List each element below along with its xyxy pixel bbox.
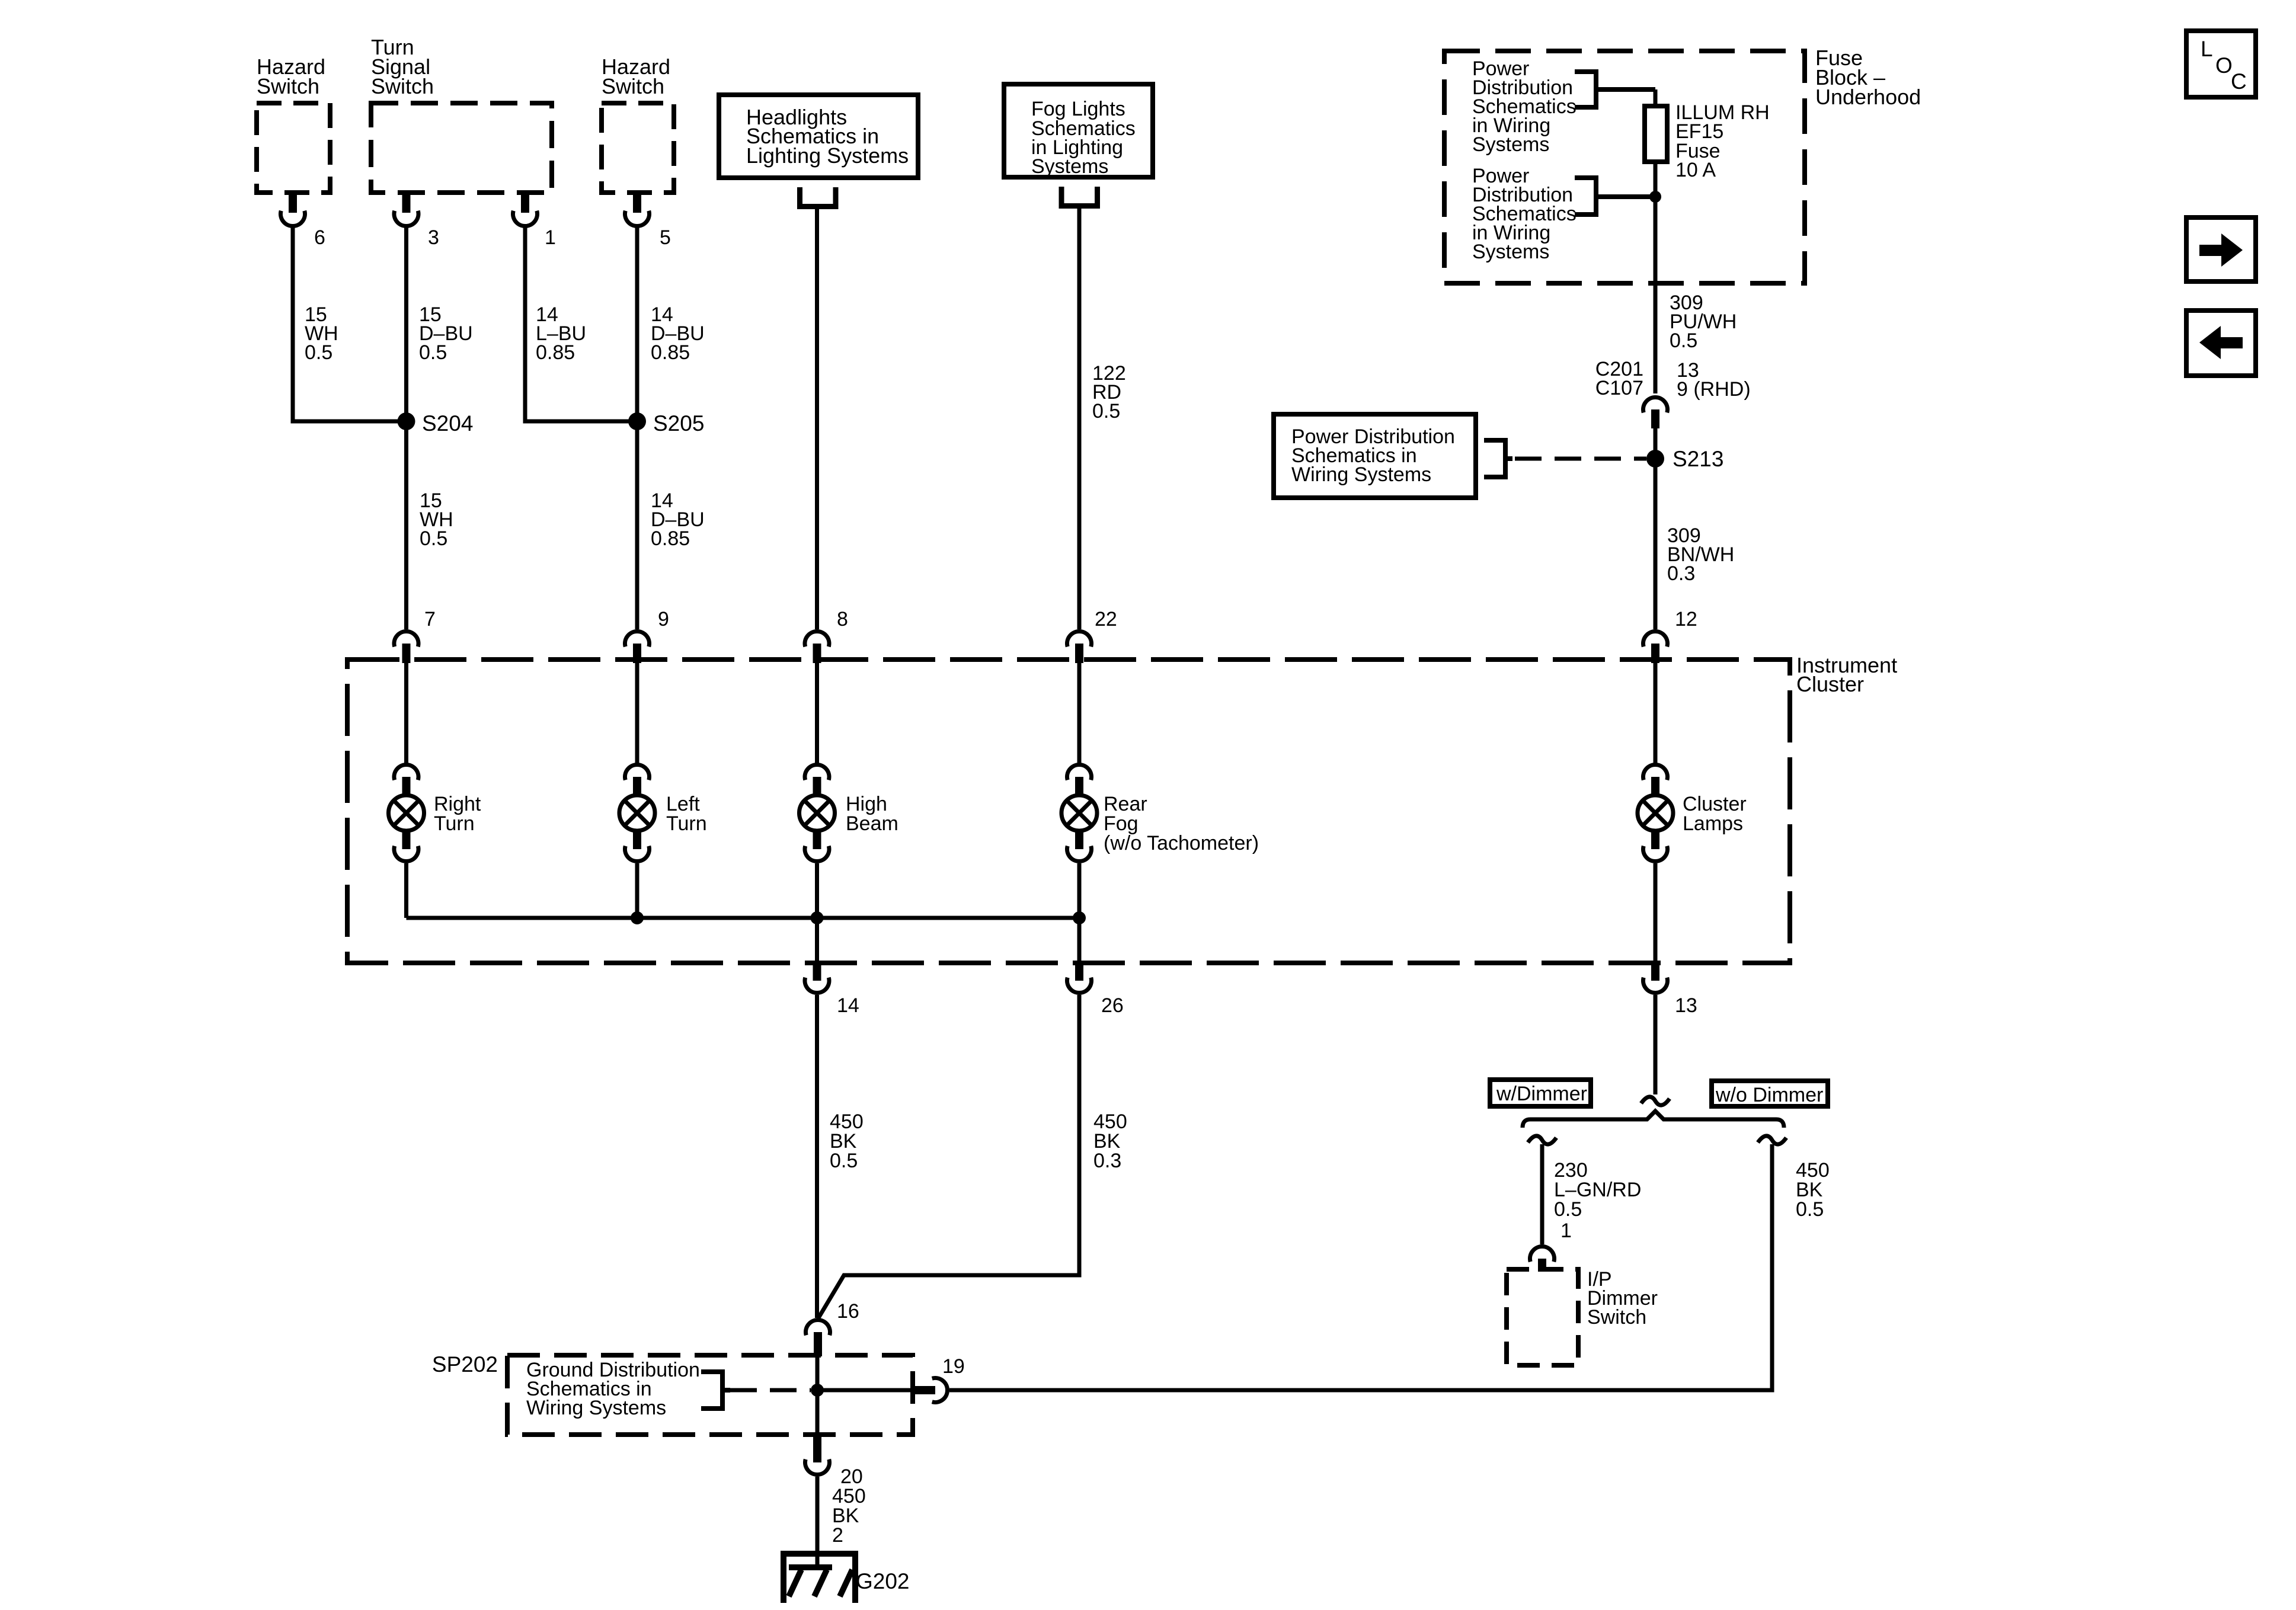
svg-text:6: 6	[314, 226, 325, 249]
bracket ref 1	[1575, 72, 1655, 107]
left arrow glyph	[2199, 326, 2243, 359]
svg-text:0.5: 0.5	[830, 1150, 858, 1172]
connector pin 5	[625, 194, 650, 226]
junction dot fuse feed	[1649, 191, 1661, 203]
svg-text:Switch: Switch	[602, 74, 664, 98]
wire pin6 to S204	[293, 227, 402, 421]
option break squiggle w/o dimmer	[1758, 1136, 1786, 1144]
svg-text:8: 8	[837, 608, 848, 630]
lamp right turn	[389, 663, 424, 918]
ground G202	[781, 1551, 858, 1603]
svg-text:5: 5	[660, 226, 671, 249]
hazard switch 2 dashed box	[602, 103, 674, 193]
wire w/dimmer branch	[1540, 1144, 1544, 1244]
text: fuse block ref 2	[1472, 165, 1576, 263]
dashed ref wire to SP202 junction	[730, 1388, 811, 1393]
svg-text:16: 16	[837, 1300, 859, 1323]
svg-text:Turn: Turn	[666, 812, 707, 835]
text: titles top row	[257, 35, 670, 98]
connector pin 1 I/P	[1530, 1246, 1555, 1272]
svg-text:Wiring Systems: Wiring Systems	[526, 1397, 666, 1419]
svg-text:26: 26	[1101, 994, 1124, 1017]
svg-text:w/Dimmer: w/Dimmer	[1496, 1083, 1587, 1105]
text: LOC letters	[2201, 37, 2247, 94]
svg-text:0.5: 0.5	[419, 341, 447, 364]
svg-text:Turn: Turn	[434, 812, 475, 835]
lamp high beam	[800, 663, 835, 964]
svg-text:SP202: SP202	[432, 1352, 498, 1377]
right arrow box	[2186, 217, 2256, 281]
option break squiggle main	[1641, 1097, 1670, 1105]
svg-text:S213: S213	[1673, 447, 1723, 471]
cluster internal bus wire	[407, 916, 1080, 920]
text: pin numbers top	[314, 226, 671, 249]
svg-text:12: 12	[1675, 608, 1697, 630]
svg-text:14: 14	[837, 994, 859, 1017]
svg-text:Systems: Systems	[1031, 155, 1108, 178]
wire pin19 to w/o dimmer branch	[949, 1144, 1772, 1390]
wire through SP202	[816, 1356, 820, 1436]
LOC box	[2186, 31, 2256, 97]
svg-text:2: 2	[832, 1524, 843, 1547]
text: instrument cluster	[1796, 653, 1897, 696]
SP202 dashed box	[507, 1355, 913, 1435]
option brace	[1523, 1111, 1784, 1128]
text: wire labels row2	[420, 489, 705, 550]
svg-text:C: C	[2231, 69, 2247, 94]
wire pin1 to S205	[525, 227, 632, 421]
svg-text:19: 19	[942, 1355, 965, 1378]
svg-text:Lighting Systems: Lighting Systems	[746, 143, 909, 168]
svg-text:Beam: Beam	[846, 812, 898, 835]
connector pin 1	[513, 194, 538, 226]
connector pin 3	[394, 194, 418, 226]
svg-text:L: L	[2201, 37, 2213, 61]
svg-text:w/o Dimmer: w/o Dimmer	[1715, 1084, 1823, 1106]
connector pin 14	[805, 964, 829, 993]
svg-text:0.5: 0.5	[1554, 1198, 1582, 1221]
headlights connector shell	[797, 187, 839, 207]
svg-text:0.5: 0.5	[1670, 329, 1697, 352]
junction S213	[1646, 450, 1664, 468]
svg-text:S204: S204	[422, 411, 473, 436]
wire headlights to pin8	[815, 209, 819, 629]
connector pin 22	[1067, 631, 1092, 663]
connector pin 6	[281, 194, 305, 226]
fuse EF15	[1645, 106, 1667, 162]
svg-text:S205: S205	[653, 411, 704, 436]
svg-text:3: 3	[428, 226, 439, 249]
svg-text:0.85: 0.85	[651, 527, 690, 550]
text: wire 450 BK 0.3	[1093, 1110, 1127, 1172]
text: power distribution ref box	[1291, 425, 1455, 486]
hazard switch 1 dashed box	[257, 103, 330, 193]
lamp left turn	[619, 663, 655, 918]
svg-text:0.5: 0.5	[420, 527, 447, 550]
connector pin 20	[805, 1436, 830, 1475]
bracket ref 4	[701, 1372, 730, 1409]
svg-text:0.5: 0.5	[305, 341, 332, 364]
svg-text:(w/o Tachometer): (w/o Tachometer)	[1104, 832, 1259, 854]
svg-text:9: 9	[658, 608, 669, 630]
junction S204	[398, 412, 415, 430]
text: wire 450 BK 0.5 right	[1796, 1159, 1830, 1221]
connector pin 9	[625, 631, 650, 663]
wire pin5 through S205 down to pin9	[635, 227, 639, 629]
svg-text:0.5: 0.5	[1796, 1198, 1824, 1221]
svg-text:Systems: Systems	[1472, 133, 1549, 156]
fuse block underhood dashed box	[1444, 51, 1805, 283]
text: wire 309 BN/WH	[1667, 524, 1734, 585]
junction dot SP202	[811, 1384, 824, 1397]
w/Dimmer label box	[1490, 1080, 1591, 1106]
svg-text:0.3: 0.3	[1093, 1150, 1121, 1172]
text: C201 C107	[1595, 358, 1643, 399]
headlights solid box	[719, 95, 918, 178]
wire pin14 down to pin16	[815, 995, 819, 1318]
junction dot bus left turn	[631, 911, 644, 924]
svg-text:Underhood: Underhood	[1815, 85, 1921, 109]
svg-text:10 A: 10 A	[1675, 159, 1716, 181]
svg-text:Systems: Systems	[1472, 241, 1549, 263]
text: fuse label	[1675, 101, 1770, 181]
svg-text:9 (RHD): 9 (RHD)	[1677, 378, 1751, 401]
junction dot bus rear fog	[1073, 911, 1086, 924]
svg-text:Lamps: Lamps	[1683, 812, 1743, 835]
text: wire labels row1	[305, 303, 705, 364]
dashed ref wire to S213	[1515, 457, 1646, 461]
connector pin 16	[806, 1320, 830, 1356]
fog lights solid box	[1004, 84, 1153, 177]
wire pin26 down and over to pin16	[818, 995, 1079, 1318]
text: wire 230 L-GN/RD	[1554, 1159, 1641, 1221]
text: bottom pin numbers	[837, 994, 1697, 1017]
svg-text:G202: G202	[856, 1569, 910, 1593]
wire bracket1 to fuse	[1654, 89, 1658, 106]
text: fuse block ref 1	[1472, 57, 1576, 156]
connector pin 19	[913, 1378, 948, 1403]
text: headlights box	[746, 105, 909, 168]
svg-text:0.85: 0.85	[651, 341, 690, 364]
svg-text:0.3: 0.3	[1667, 562, 1695, 585]
w/o Dimmer label box	[1712, 1081, 1828, 1106]
right arrow glyph	[2199, 233, 2243, 267]
svg-text:Cluster: Cluster	[1796, 672, 1864, 696]
wire pin20 to ground	[816, 1477, 820, 1569]
instrument cluster dashed box	[347, 660, 1790, 963]
power distribution ref solid box	[1274, 414, 1476, 498]
svg-text:Switch: Switch	[257, 74, 319, 98]
turn signal switch dashed box	[371, 103, 552, 193]
svg-text:O: O	[2215, 53, 2233, 78]
svg-text:C107: C107	[1595, 377, 1643, 399]
text: ground distribution ref	[526, 1359, 700, 1419]
lamp rear fog	[1061, 663, 1097, 964]
text: fog lights box	[1031, 98, 1136, 178]
wire pin13 down to option split	[1654, 995, 1658, 1094]
connector pin 7	[394, 631, 418, 663]
svg-text:0.5: 0.5	[1092, 400, 1120, 422]
junction dot bus high beam	[811, 911, 824, 924]
wire fuse down through fuse block	[1654, 162, 1658, 393]
junction S205	[628, 412, 646, 430]
I/P dimmer switch dashed box	[1507, 1269, 1578, 1365]
lamp cluster lamps	[1638, 663, 1673, 964]
wire C201 to S213 to pin12	[1654, 428, 1658, 629]
text: pin 13 / 9 RHD	[1677, 359, 1751, 401]
connector pin 26	[1067, 964, 1092, 993]
text: lamp labels	[434, 793, 1747, 854]
text: I/P dimmer switch	[1587, 1268, 1658, 1329]
text: fuse block title	[1815, 46, 1921, 109]
connector pin 12	[1643, 631, 1667, 663]
connector pin 13	[1643, 964, 1668, 993]
wire SP202 junction to pin19	[817, 1388, 913, 1393]
text: wire 450 BK 0.5	[830, 1110, 864, 1172]
connector C201/C107	[1643, 397, 1667, 428]
bracket ref 2	[1575, 178, 1655, 215]
text: cluster pin numbers	[424, 608, 1697, 630]
option break squiggle w/dimmer	[1528, 1136, 1556, 1144]
svg-text:7: 7	[424, 608, 436, 630]
connector pin 8	[805, 631, 829, 663]
svg-text:1: 1	[1560, 1219, 1572, 1242]
svg-text:0.85: 0.85	[536, 341, 575, 364]
svg-text:13: 13	[1675, 994, 1697, 1017]
svg-text:Switch: Switch	[371, 74, 434, 98]
bracket ref 3	[1484, 440, 1512, 477]
svg-text:1: 1	[545, 226, 556, 249]
text: pin 20 and wire 450 BK 2	[832, 1465, 866, 1547]
text: wire 309 PU/WH	[1670, 292, 1737, 352]
svg-text:Switch: Switch	[1587, 1306, 1646, 1329]
left arrow box	[2186, 311, 2256, 376]
text: wire 122 RD	[1092, 362, 1126, 422]
wire fog lights to pin22	[1077, 209, 1082, 629]
wire pin3 through S204 down to pin7	[404, 227, 408, 629]
fog lights connector shell	[1059, 187, 1101, 206]
svg-text:22: 22	[1095, 608, 1117, 630]
svg-text:Wiring Systems: Wiring Systems	[1291, 463, 1431, 486]
